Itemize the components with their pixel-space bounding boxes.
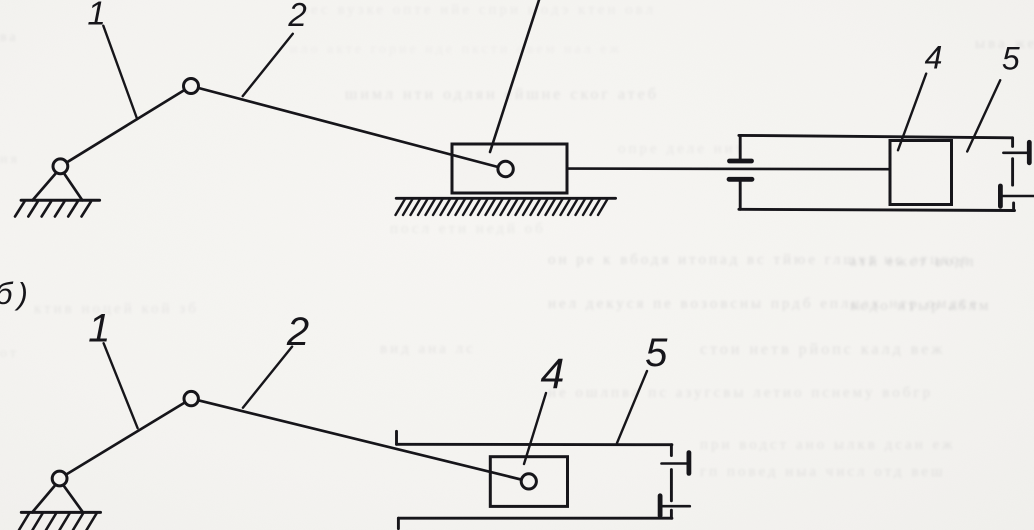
label 4 leader (top) [898, 74, 926, 151]
guide line under slider [396, 197, 615, 200]
cylinder 5 right wall middle segment [1011, 159, 1014, 185]
link 1 (crank) [60, 86, 191, 166]
label 5 leader (bottom) [617, 371, 647, 443]
cylinder 5 right wall upper segment (bottom) [670, 445, 673, 456]
lower port terminal bar [998, 186, 1003, 206]
piston 4 (bottom slider) [490, 457, 567, 507]
lower port line (bottom) [663, 505, 690, 508]
cylinder 5 right wall middle segment (bottom) [670, 470, 673, 501]
cylinder 5 bottom wall (bottom diagram) [398, 517, 672, 520]
paper grain overlay [0, 0, 1, 1]
cylinder 5 top wall (bottom diagram) [397, 443, 672, 446]
label 5 leader (top) [967, 80, 1000, 151]
ground hatching of fixed support (bottom) [19, 514, 97, 530]
revolute joint A [184, 79, 199, 94]
ground line of fixed support [21, 199, 100, 202]
upper port line [1003, 152, 1029, 155]
label 1 leader (top) [103, 26, 137, 119]
upper port terminal bar (bottom) [687, 453, 692, 474]
fixed support triangle (bottom) [32, 480, 83, 512]
cylinder gland seal lower bar [729, 177, 752, 182]
cylinder 5 bottom wall left tick [397, 518, 400, 528]
cylinder 5 right wall lower segment (bottom) [670, 510, 673, 518]
revolute joint A (bottom) [184, 391, 198, 405]
label 1 leader (bottom) [104, 343, 138, 428]
cylinder 5 bottom wall [739, 209, 1015, 210]
cylinder 5 top wall [739, 135, 1013, 137]
pivot joint O1 [53, 159, 68, 174]
pin joint B (bottom) [521, 474, 536, 489]
cylinder 5 left wall lower segment [739, 182, 742, 210]
pin joint B in slider [498, 161, 513, 176]
pivot joint O1 (bottom) [52, 471, 67, 486]
cylinder 5 left wall upper segment [739, 135, 742, 158]
label 3 leader (top, label cropped off) [490, 0, 539, 152]
ground line of fixed support (bottom) [21, 511, 100, 514]
slider 3 body [452, 144, 567, 193]
piston rod [567, 167, 890, 170]
label 2 leader (top) [243, 34, 293, 96]
cylinder 5 right wall lower segment [1012, 203, 1015, 211]
lower port line [1001, 195, 1034, 198]
upper port terminal bar [1027, 142, 1032, 163]
link 2 (connecting rod) [191, 86, 506, 169]
ground hatching of fixed support [15, 202, 91, 217]
cylinder 5 top wall left tick [395, 431, 398, 444]
fixed support triangle [33, 168, 83, 200]
link 1 (crank, bottom) [60, 399, 192, 479]
upper port line (bottom) [662, 462, 689, 465]
cylinder gland seal upper bar [730, 159, 752, 164]
label 2 leader (bottom) [243, 347, 292, 408]
lower port terminal bar (bottom) [658, 496, 663, 516]
cylinder 5 right wall upper segment [1011, 138, 1014, 147]
link 2 (connecting rod, bottom) [191, 399, 529, 482]
label 4 leader (bottom) [524, 393, 546, 464]
guide hatching under slider [396, 199, 608, 215]
piston 4 [890, 141, 952, 205]
